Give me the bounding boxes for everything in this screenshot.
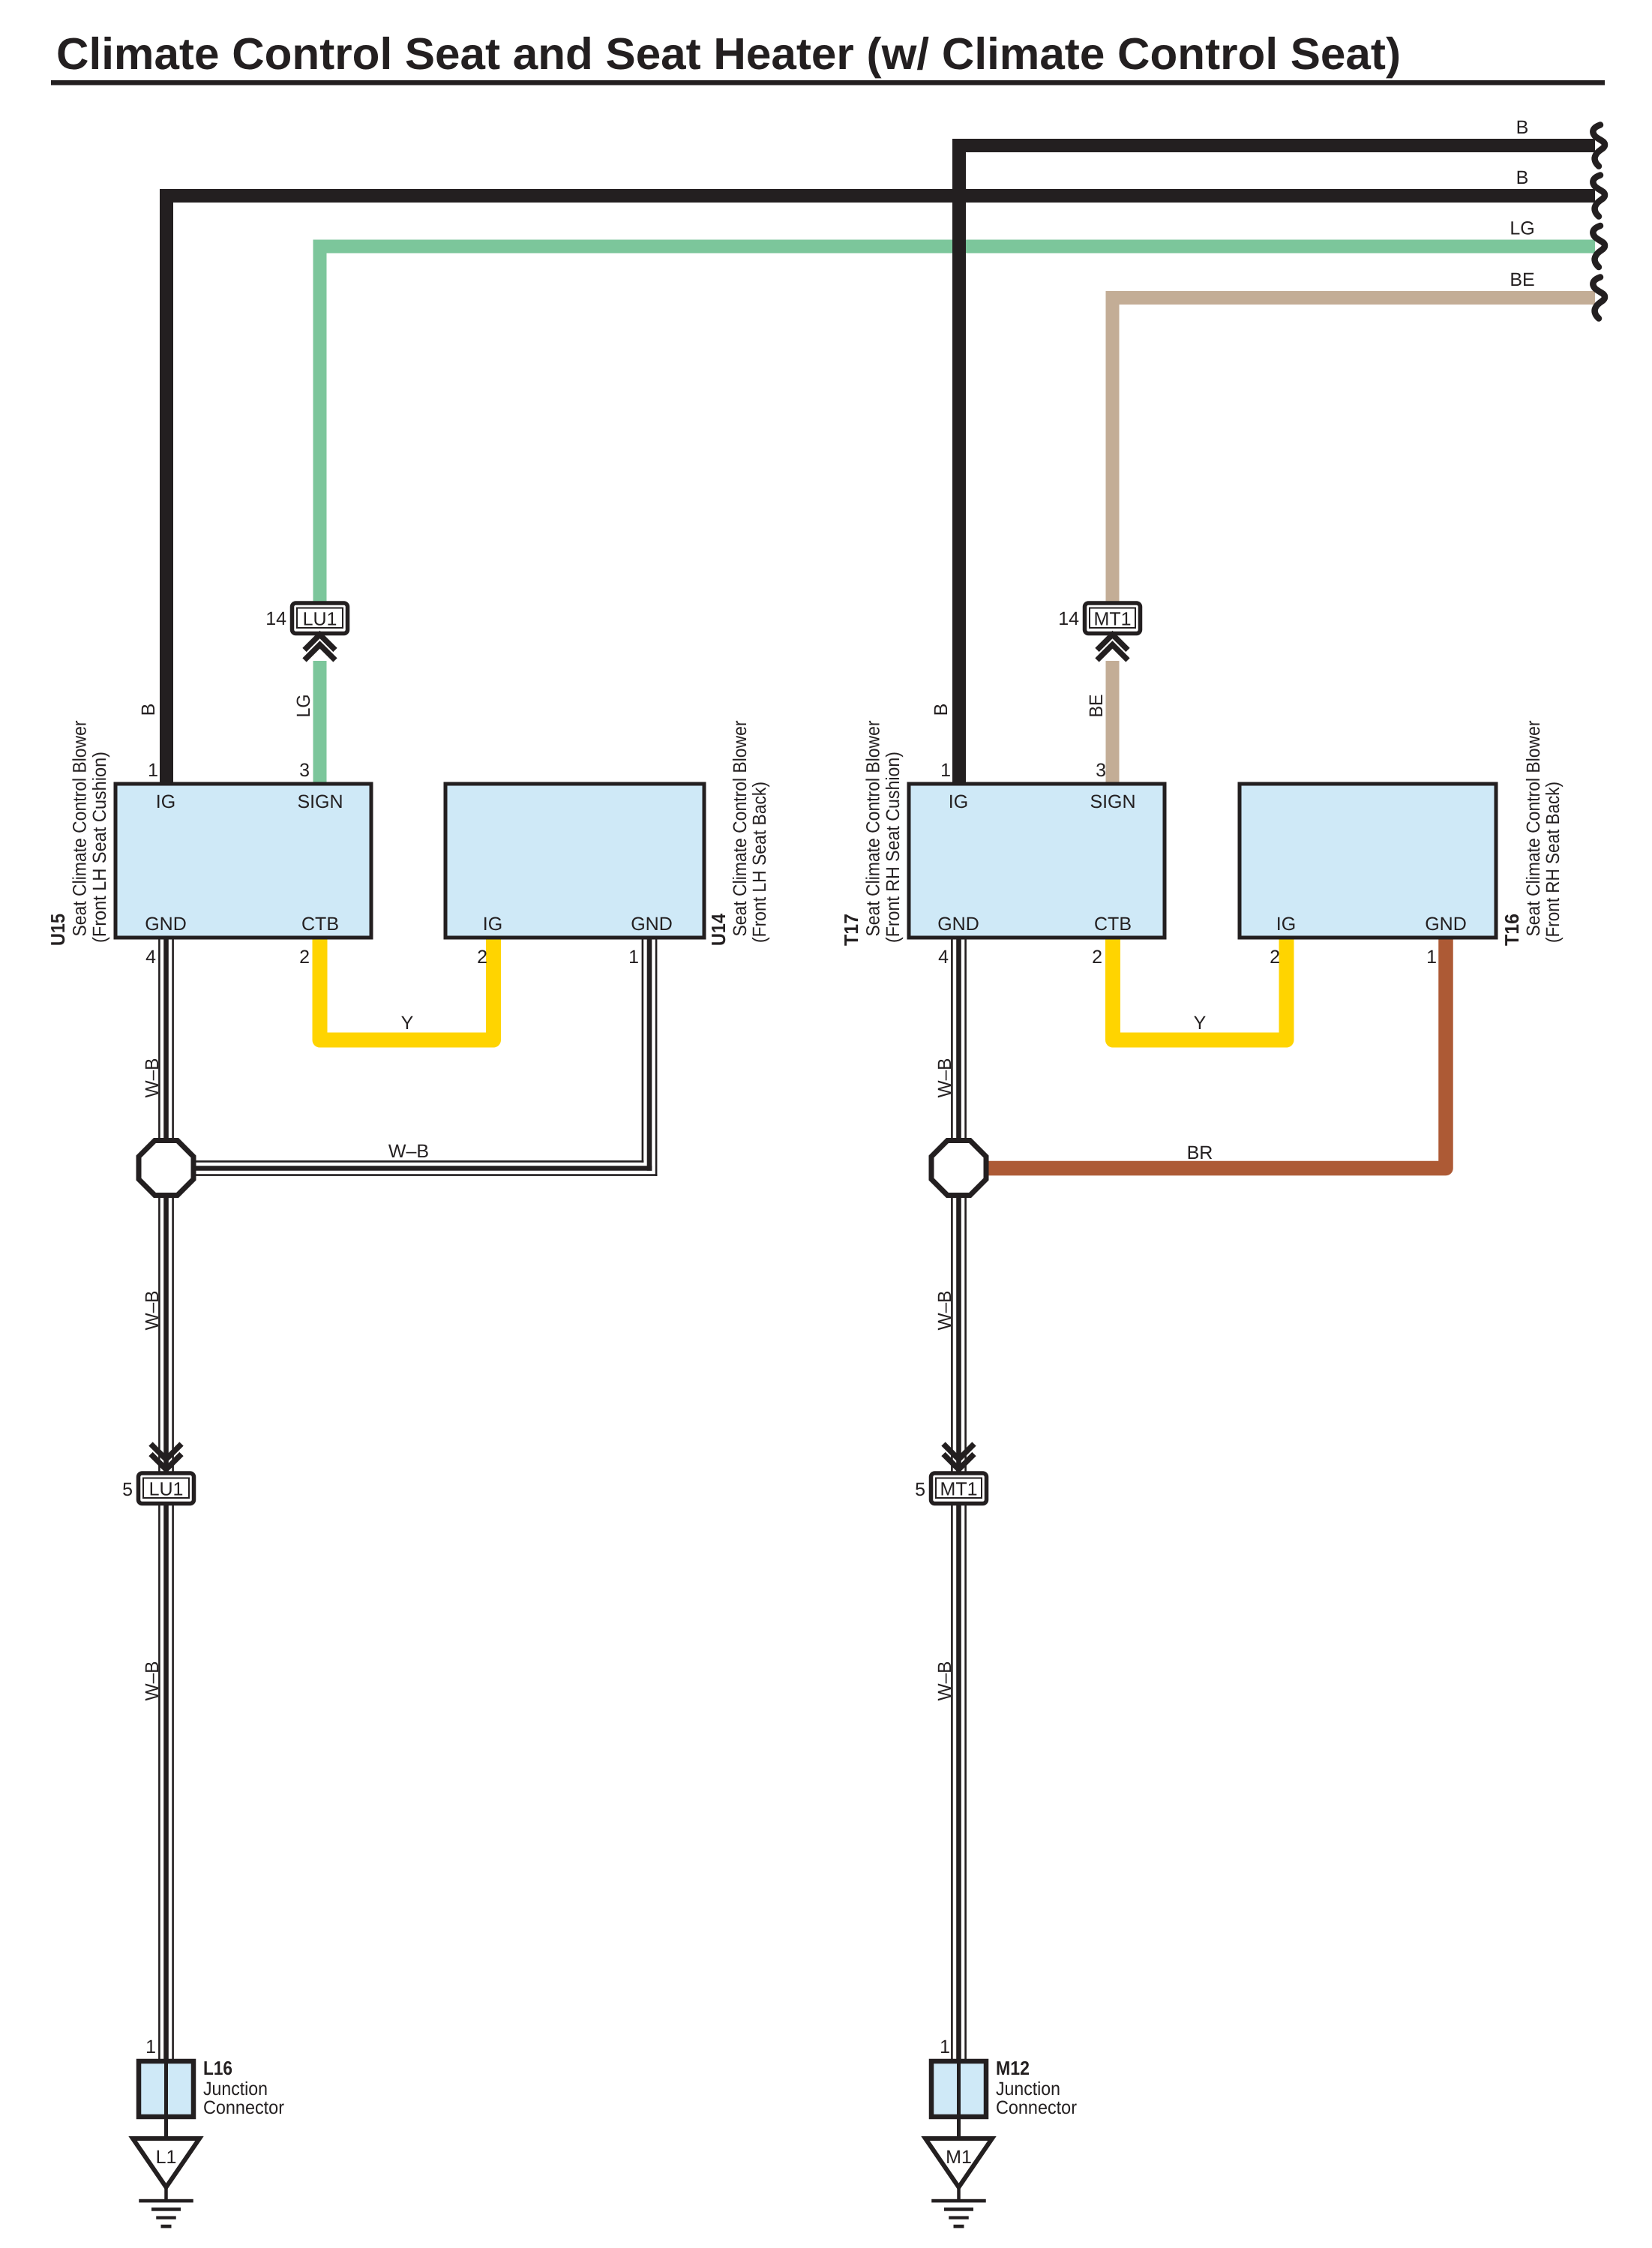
- svg-text:LU1: LU1: [149, 1479, 184, 1500]
- svg-text:IG: IG: [1276, 914, 1296, 935]
- svg-text:W–B: W–B: [142, 1291, 163, 1331]
- svg-text:M12: M12: [996, 2057, 1030, 2079]
- svg-text:Seat Climate Control Blower: Seat Climate Control Blower: [730, 721, 751, 937]
- svg-text:14: 14: [265, 608, 286, 629]
- svg-text:W–B: W–B: [934, 1058, 955, 1098]
- svg-text:L1: L1: [156, 2147, 177, 2168]
- svg-text:SIGN: SIGN: [297, 791, 343, 812]
- svg-text:W–B: W–B: [934, 1291, 955, 1331]
- svg-text:(Front LH Seat Back): (Front LH Seat Back): [749, 782, 770, 943]
- svg-text:4: 4: [145, 947, 156, 968]
- svg-text:3: 3: [299, 760, 310, 781]
- svg-text:IG: IG: [483, 914, 502, 935]
- svg-text:Connector: Connector: [203, 2097, 284, 2118]
- svg-text:W–B: W–B: [934, 1661, 955, 1701]
- svg-text:LG: LG: [293, 695, 314, 718]
- svg-text:4: 4: [938, 947, 949, 968]
- svg-text:SIGN: SIGN: [1090, 791, 1135, 812]
- svg-text:1: 1: [628, 947, 639, 968]
- svg-text:(Front LH Seat Cushion): (Front LH Seat Cushion): [89, 752, 110, 943]
- svg-text:2: 2: [1270, 947, 1280, 968]
- svg-text:M1: M1: [946, 2147, 972, 2168]
- svg-text:Climate Control Seat and Seat: Climate Control Seat and Seat Heater (w/…: [56, 29, 1401, 79]
- svg-text:2: 2: [477, 947, 487, 968]
- svg-text:14: 14: [1058, 608, 1079, 629]
- svg-text:Seat Climate Control Blower: Seat Climate Control Blower: [70, 721, 91, 937]
- svg-text:1: 1: [145, 2036, 156, 2057]
- svg-text:LG: LG: [1510, 218, 1534, 239]
- svg-text:Junction: Junction: [996, 2078, 1060, 2099]
- svg-text:GND: GND: [937, 914, 979, 935]
- svg-text:CTB: CTB: [1094, 914, 1132, 935]
- svg-text:BE: BE: [1510, 269, 1534, 290]
- svg-text:Y: Y: [1194, 1013, 1207, 1034]
- svg-text:W–B: W–B: [142, 1058, 163, 1098]
- svg-text:W–B: W–B: [142, 1661, 163, 1701]
- svg-text:(Front RH Seat Back): (Front RH Seat Back): [1543, 782, 1564, 943]
- svg-text:Seat Climate Control Blower: Seat Climate Control Blower: [863, 721, 884, 937]
- svg-text:B: B: [138, 704, 159, 716]
- svg-text:L16: L16: [203, 2057, 232, 2079]
- svg-text:5: 5: [915, 1479, 925, 1500]
- svg-text:3: 3: [1096, 760, 1106, 781]
- svg-text:Seat Climate Control Blower: Seat Climate Control Blower: [1523, 721, 1544, 937]
- svg-text:GND: GND: [631, 914, 673, 935]
- svg-text:B: B: [931, 704, 952, 716]
- svg-text:LU1: LU1: [303, 609, 337, 630]
- svg-text:1: 1: [940, 2036, 950, 2057]
- svg-text:MT1: MT1: [1094, 609, 1132, 630]
- svg-text:Y: Y: [401, 1013, 414, 1034]
- svg-text:Junction: Junction: [203, 2078, 268, 2099]
- svg-text:IG: IG: [156, 791, 175, 812]
- svg-text:U14: U14: [707, 914, 730, 946]
- svg-text:CTB: CTB: [301, 914, 339, 935]
- svg-text:MT1: MT1: [940, 1479, 978, 1500]
- svg-text:GND: GND: [145, 914, 187, 935]
- svg-text:IG: IG: [949, 791, 968, 812]
- svg-text:5: 5: [122, 1479, 133, 1500]
- svg-text:1: 1: [940, 760, 951, 781]
- svg-text:B: B: [1516, 117, 1529, 138]
- svg-text:1: 1: [1426, 947, 1437, 968]
- svg-text:W–B: W–B: [388, 1141, 429, 1162]
- svg-text:BE: BE: [1086, 695, 1107, 718]
- svg-text:Connector: Connector: [996, 2097, 1077, 2118]
- svg-text:1: 1: [148, 760, 158, 781]
- svg-text:2: 2: [299, 947, 310, 968]
- svg-text:B: B: [1516, 167, 1529, 188]
- svg-text:2: 2: [1092, 947, 1102, 968]
- svg-text:(Front RH Seat Cushion): (Front RH Seat Cushion): [883, 752, 904, 943]
- svg-text:U15: U15: [46, 914, 69, 946]
- svg-text:BR: BR: [1187, 1142, 1213, 1163]
- svg-text:T16: T16: [1501, 914, 1523, 946]
- svg-text:T17: T17: [840, 914, 862, 946]
- svg-text:GND: GND: [1425, 914, 1467, 935]
